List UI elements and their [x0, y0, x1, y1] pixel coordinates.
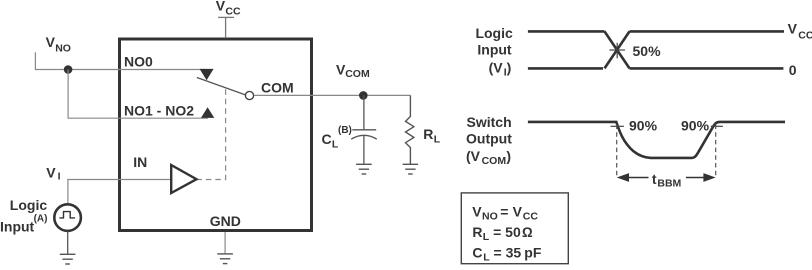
control dashed wire	[197, 89, 226, 179]
label tBBM	[652, 171, 682, 189]
switch lever	[197, 78, 246, 95]
svg-text:V: V	[513, 203, 523, 219]
dimension arrow tBBM	[617, 173, 716, 182]
label VI	[46, 164, 60, 182]
svg-text:90%: 90%	[629, 117, 658, 133]
svg-text:Output: Output	[466, 131, 512, 147]
svg-text:0: 0	[789, 62, 797, 78]
waveform logic input	[528, 31, 784, 68]
ground below CL	[356, 164, 372, 174]
svg-text:BBM: BBM	[657, 178, 681, 190]
svg-text:(V: (V	[489, 59, 504, 75]
svg-text:GND: GND	[210, 213, 241, 229]
label VCC level	[788, 20, 812, 41]
resistor RL zigzag	[406, 95, 414, 164]
svg-text:NO0: NO0	[124, 53, 153, 69]
svg-text:L: L	[332, 138, 339, 150]
wire COM output	[254, 94, 410, 96]
ticks 90%	[611, 125, 723, 127]
label VCOM	[336, 62, 370, 81]
ground below RL	[403, 164, 419, 174]
svg-text:L: L	[483, 251, 490, 263]
svg-text:I: I	[58, 170, 61, 182]
label CL (B)	[322, 125, 352, 150]
svg-text:V: V	[46, 164, 56, 180]
label Switch Output (VCOM)	[466, 114, 512, 167]
svg-text:V: V	[46, 34, 56, 50]
svg-text:(V: (V	[466, 148, 481, 164]
note box	[461, 193, 568, 264]
power symbol VCC	[218, 17, 234, 38]
note line 2: RL = 50 ohm	[472, 224, 533, 243]
svg-text:R: R	[423, 126, 433, 142]
svg-text:V: V	[788, 20, 798, 36]
wire IN	[68, 180, 171, 204]
svg-text:= 35: = 35	[494, 244, 522, 260]
node junction VCOM	[359, 91, 368, 100]
svg-text:Input: Input	[0, 218, 35, 234]
ground below source	[60, 254, 76, 264]
wire VNO	[35, 52, 119, 69]
svg-text:90%: 90%	[681, 117, 710, 133]
svg-text:CC: CC	[225, 5, 241, 17]
svg-text:(A): (A)	[34, 213, 48, 224]
svg-text:COM: COM	[261, 80, 294, 96]
svg-text:R: R	[472, 224, 482, 240]
svg-text:Switch: Switch	[467, 114, 512, 130]
svg-text:CC: CC	[798, 29, 812, 41]
tick 50% crossing	[609, 43, 625, 59]
svg-text:V: V	[472, 203, 482, 219]
switch pole COM circle	[245, 91, 253, 99]
svg-text:Logic: Logic	[10, 197, 48, 213]
svg-text:Input: Input	[477, 42, 512, 58]
label RL	[423, 126, 440, 145]
contact NO1 triangle	[201, 107, 214, 118]
svg-text:=: =	[500, 203, 508, 219]
svg-text:L: L	[483, 231, 490, 243]
svg-text:CC: CC	[523, 210, 539, 222]
svg-text:COM: COM	[482, 155, 507, 167]
node junction VNO	[64, 65, 73, 74]
dashed marker left	[616, 125, 618, 179]
wire NO1 branch	[68, 70, 119, 119]
wire CL lead	[363, 95, 365, 129]
svg-text:NO: NO	[482, 210, 498, 222]
label Logic Input (VI)	[475, 25, 513, 79]
label Logic Input (A)	[0, 197, 47, 234]
svg-text:pF: pF	[524, 244, 542, 260]
svg-text:Logic: Logic	[475, 25, 513, 41]
svg-text:NO1 - NO2: NO1 - NO2	[124, 102, 194, 118]
dashed marker right	[715, 125, 717, 179]
contact NO0 triangle	[200, 69, 214, 80]
svg-text:(B): (B)	[338, 125, 352, 136]
svg-text:C: C	[472, 244, 482, 260]
IC U1 box	[120, 39, 312, 231]
svg-text:COM: COM	[345, 68, 370, 80]
wire NO0 internal	[119, 69, 206, 71]
note line 1: VNO = VCC	[472, 203, 538, 222]
svg-text:50%: 50%	[633, 43, 662, 59]
svg-text:= 50: = 50	[493, 224, 521, 240]
svg-text:NO: NO	[55, 42, 71, 54]
svg-text:L: L	[434, 133, 441, 145]
buffer driver	[171, 165, 196, 193]
waveform switch output	[528, 122, 785, 158]
wire source to ground	[67, 231, 69, 254]
label VNO	[46, 34, 71, 55]
svg-text:): )	[507, 59, 512, 75]
svg-text:IN: IN	[133, 154, 147, 170]
wire GND pin	[224, 232, 226, 254]
note line 3: CL = 35 pF	[472, 244, 541, 263]
svg-text:V: V	[216, 0, 226, 13]
svg-text:Ω: Ω	[522, 224, 533, 240]
wire CL to ground	[363, 136, 365, 164]
source pulse generator	[54, 204, 81, 231]
ground below GND pin	[217, 254, 233, 264]
svg-text:): )	[506, 148, 511, 164]
svg-text:t: t	[652, 171, 657, 187]
svg-text:C: C	[322, 131, 332, 147]
wire NO1 internal	[119, 117, 208, 119]
pulse glyph	[59, 212, 75, 218]
capacitor CL	[351, 130, 377, 139]
